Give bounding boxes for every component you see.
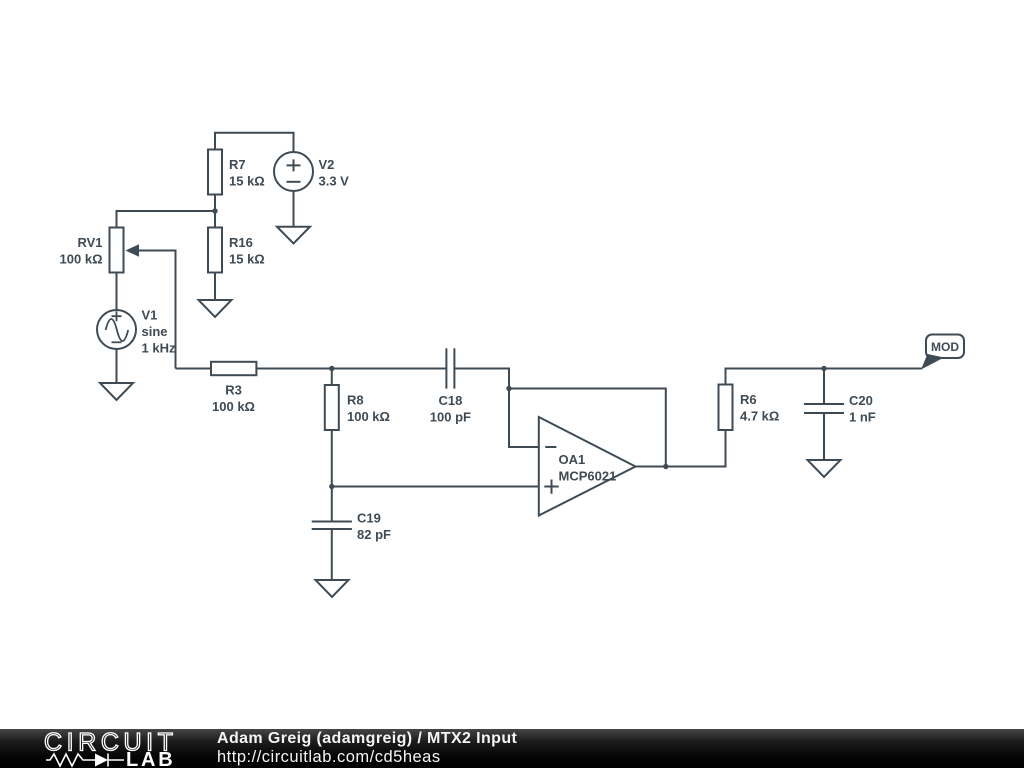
svg-text:R6: R6: [740, 392, 757, 407]
OA1 minus input sign: [545, 446, 556, 448]
svg-text:100 kΩ: 100 kΩ: [347, 409, 390, 424]
svg-text:3.3 V: 3.3 V: [319, 174, 350, 189]
resistor R16: [208, 228, 222, 273]
ground below V2: [277, 227, 310, 244]
svg-text:100 pF: 100 pF: [430, 410, 471, 425]
svg-text:82 pF: 82 pF: [357, 527, 391, 542]
wire R7 vertical: [214, 145, 216, 211]
flag MOD box: [926, 335, 964, 359]
node feedback junction dot: [506, 386, 511, 391]
wire R16 vertical: [214, 211, 216, 300]
capacitor C19 plates: [312, 522, 352, 530]
wire C20 top lead: [823, 369, 825, 405]
wire C18 right to corner: [454, 369, 538, 448]
V1 minus sign: [112, 341, 122, 343]
wire C19 bottom lead: [331, 529, 333, 580]
V1 plus sign: [112, 311, 122, 321]
wire C20 bottom lead: [823, 413, 825, 460]
svg-text:C18: C18: [438, 393, 462, 408]
wire top V2-R7: [215, 133, 294, 152]
svg-text:1 nF: 1 nF: [849, 410, 876, 425]
wire feedback loop: [509, 389, 666, 467]
potentiometer RV1: [110, 228, 124, 273]
wire output to R6: [636, 388, 726, 467]
wire RV1/V1 vertical: [116, 211, 118, 383]
wire main horizontal to C18 left: [176, 368, 447, 370]
wire plus input: [332, 486, 539, 488]
resistor R6: [719, 385, 733, 431]
wire V2 to ground: [293, 152, 295, 227]
OA1 plus input sign: [544, 480, 558, 494]
resistor R7: [208, 150, 222, 195]
ground below R16: [199, 300, 232, 317]
svg-text:15 kΩ: 15 kΩ: [229, 252, 265, 267]
CircuitLab logo: [0, 729, 200, 768]
V1 sine symbol: [106, 319, 129, 341]
V2 minus sign: [287, 181, 301, 183]
ground below V1: [100, 383, 133, 400]
resistor R3: [211, 362, 256, 375]
RV1 wiper arrow: [126, 244, 140, 256]
svg-text:MCP6021: MCP6021: [559, 469, 617, 484]
wire node A horizontal: [117, 211, 216, 230]
op-amp OA1: [539, 417, 636, 516]
footer title text: [217, 729, 517, 767]
svg-text:sine: sine: [142, 324, 168, 339]
svg-text:100 kΩ: 100 kΩ: [212, 399, 255, 414]
svg-text:15 kΩ: 15 kΩ: [229, 174, 265, 189]
ground below C20: [808, 460, 841, 477]
node C20 junction dot: [821, 366, 826, 371]
wire R8 branch: [331, 369, 333, 487]
voltage source V1: [97, 310, 136, 349]
voltage source V2: [274, 152, 313, 191]
node R3/R8 junction dot: [329, 366, 334, 371]
node A junction dot: [212, 208, 217, 213]
svg-text:100 kΩ: 100 kΩ: [60, 252, 103, 267]
svg-text:OA1: OA1: [559, 452, 586, 467]
svg-text:RV1: RV1: [77, 235, 102, 250]
wire RV1 wiper to R3: [138, 251, 176, 369]
V2 plus sign: [287, 159, 301, 171]
logo diode: [95, 754, 108, 767]
svg-text:V2: V2: [319, 157, 335, 172]
flag MOD tail: [921, 354, 944, 370]
logo resistor zigzag: [46, 754, 95, 766]
svg-text:C20: C20: [849, 393, 873, 408]
svg-text:LAB: LAB: [126, 749, 176, 768]
svg-text:4.7 kΩ: 4.7 kΩ: [740, 409, 779, 424]
footer bar: [0, 729, 1024, 768]
svg-text:1 kHz: 1 kHz: [142, 341, 176, 356]
capacitor C20 plates: [804, 404, 844, 413]
svg-text:V1: V1: [142, 308, 158, 323]
ground below C19: [316, 580, 349, 597]
wire R6 top to MOD: [726, 369, 923, 389]
capacitor C18 plates: [446, 348, 454, 388]
svg-text:R3: R3: [225, 383, 242, 398]
node output junction dot: [663, 464, 668, 469]
svg-text:R16: R16: [229, 235, 253, 250]
resistor R8: [325, 385, 339, 430]
svg-text:R7: R7: [229, 157, 246, 172]
svg-text:MOD: MOD: [931, 340, 959, 354]
svg-text:R8: R8: [347, 393, 364, 408]
wire C19 top lead: [331, 487, 333, 522]
node plus-input junction dot: [329, 484, 334, 489]
svg-text:C19: C19: [357, 511, 381, 526]
